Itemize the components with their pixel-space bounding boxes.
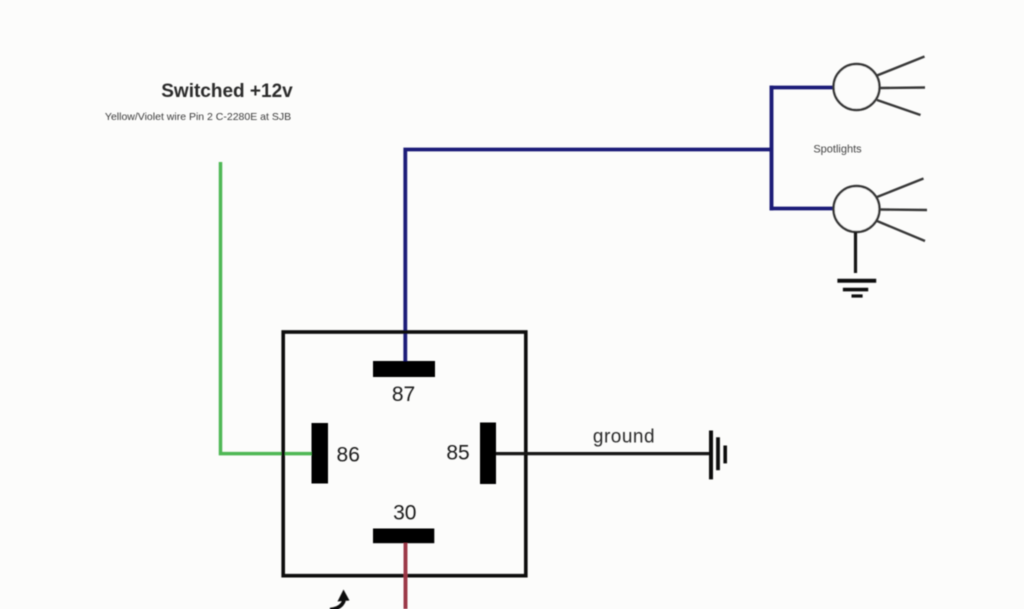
wire: lamp ground lead: [854, 232, 857, 273]
pin 87 terminal: [373, 361, 435, 377]
lamp: upper spotlight: [834, 57, 926, 116]
wire: red battery feed from pin 30: [404, 543, 408, 609]
relay body (box): [283, 332, 526, 576]
ground: chassis ground symbol right of relay: [711, 431, 725, 480]
wire: blue branch to upper spotlight: [770, 86, 833, 90]
lamp: lower spotlight: [834, 179, 928, 242]
arrow: small cursor arrow at bottom: [330, 590, 350, 609]
wire: ground wire from pin 85: [496, 452, 710, 455]
svg-text:ground: ground: [593, 427, 655, 448]
svg-text:Spotlights: Spotlights: [813, 144, 862, 156]
svg-text:87: 87: [392, 383, 415, 406]
wire: blue from pin 87 up and right to spotlight branch: [405, 150, 771, 362]
svg-text:Switched +12v: Switched +12v: [161, 81, 293, 102]
wire: blue branch to lower spotlight: [770, 207, 834, 211]
svg-text:85: 85: [446, 441, 469, 464]
wire: green switched +12v feed to pin 86: [221, 162, 312, 454]
pin 86 terminal: [312, 423, 329, 484]
pin 85 terminal: [480, 423, 496, 485]
svg-text:Yellow/Violet wire Pin 2 C-228: Yellow/Violet wire Pin 2 C-2280E at SJB: [105, 111, 291, 123]
svg-text:30: 30: [393, 502, 416, 525]
ground: earth symbol below lower spotlight: [837, 281, 876, 296]
pin 30 terminal: [373, 529, 434, 544]
wire: blue branch riser: [770, 86, 774, 211]
svg-text:86: 86: [337, 443, 360, 466]
